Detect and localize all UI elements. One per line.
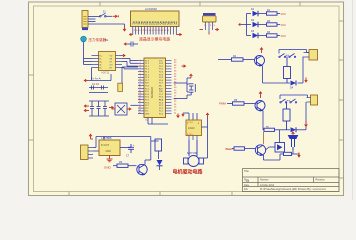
cluster bridge D group [115, 103, 127, 115]
LCD pins [133, 27, 177, 35]
transistor Q2 [255, 101, 265, 111]
pin mark red bottom right of MCU (red) [177, 114, 180, 118]
resistor R5 [233, 99, 245, 105]
svg-text:E-: E- [100, 58, 102, 60]
svg-text:VCC: VCC [281, 34, 287, 38]
wire block3 [264, 150, 294, 160]
svg-text:Date: Date [244, 184, 250, 187]
connector J1 (top-left) [82, 11, 88, 31]
svg-text:GND: GND [104, 166, 112, 170]
svg-text:D:\Protel\design\sheet1.ddb D: D:\Protel\design\sheet1.ddb Drawn By: xx… [260, 187, 327, 191]
svg-text:P1.3: P1.3 [145, 69, 149, 71]
LCD pin numbers (red) [132, 30, 170, 32]
wire J1 pins [88, 17, 125, 28]
svg-text:V V V R R E D0 D1 D2 D3 D4 D5: V V V R R E D0 D1 D2 D3 D4 D5 D6 D7 A K [132, 23, 178, 26]
transistor Q4 [137, 164, 147, 175]
wire collector up (brown) [263, 132, 265, 145]
svg-text:P2.3: P2.3 [159, 105, 163, 107]
potentiometer RV1 [203, 13, 217, 32]
LCD module LCD1 [131, 7, 180, 27]
svg-text:GND: GND [145, 114, 150, 116]
resistor R1 [264, 9, 281, 15]
relay coil RL1 [284, 57, 291, 84]
power VCC arrow right (red) [113, 15, 118, 18]
svg-text:P3.3: P3.3 [145, 94, 149, 96]
LED D1 [251, 8, 264, 16]
capacitor C1 C2 group [89, 86, 108, 93]
resistor R10 vertical [155, 139, 162, 159]
svg-text:P0.7: P0.7 [159, 83, 163, 85]
svg-text:P1.4: P1.4 [145, 72, 149, 74]
svg-text:P3.7: P3.7 [145, 105, 149, 107]
svg-text:C1 C2: C1 C2 [92, 83, 99, 86]
svg-text:P2.2: P2.2 [159, 108, 163, 110]
svg-text:电机驱动电路: 电机驱动电路 [173, 169, 204, 176]
motor M1 [184, 140, 204, 167]
MCU pin numbers (red) [139, 59, 178, 114]
wire emitter bus 2 [263, 102, 306, 130]
svg-text:XO: XO [110, 64, 113, 66]
inner border frame [34, 6, 340, 192]
svg-text:XT1: XT1 [145, 111, 148, 113]
resistor R3 [264, 31, 281, 37]
svg-text:P2.0: P2.0 [159, 114, 163, 116]
svg-text:压力传感器: 压力传感器 [89, 37, 107, 42]
svg-text:P1.0: P1.0 [145, 60, 149, 62]
svg-text:AT89C51: AT89C51 [150, 87, 154, 99]
buzzer LS1 [289, 136, 298, 151]
MCU pins left [138, 61, 144, 114]
node mark right (red) [305, 78, 308, 82]
connector P2 [304, 50, 318, 61]
LED D2 [251, 19, 264, 27]
node mark (red) [239, 23, 242, 25]
svg-text:VCC: VCC [281, 12, 287, 16]
relay K2 contacts [280, 95, 308, 103]
svg-text:P0.4: P0.4 [159, 74, 163, 76]
svg-text:VCC: VCC [281, 23, 287, 27]
svg-text:P0.1: P0.1 [159, 66, 163, 68]
title block [243, 169, 340, 192]
power above buzzer (red) [292, 132, 295, 135]
svg-text:P1.6: P1.6 [145, 77, 149, 79]
svg-text:P3.1: P3.1 [145, 88, 149, 90]
svg-text:Title: Title [244, 169, 249, 173]
MCU pin names (blue, inside) [145, 60, 164, 115]
wire base 1 [218, 59, 254, 61]
optocoupler U4 [266, 143, 285, 153]
resistor R8 [280, 152, 299, 155]
node mark right (red) [109, 106, 113, 109]
driver IC U3 [186, 120, 202, 140]
svg-text:Revision: Revision [316, 179, 326, 182]
svg-text:P1.7: P1.7 [145, 80, 149, 82]
wire MCU left bus [111, 44, 138, 83]
wire U2 to MCU [122, 59, 138, 69]
resistor R7 [234, 147, 245, 150]
svg-text:P3.4: P3.4 [145, 97, 149, 99]
power above Q2 (red) [259, 92, 262, 98]
ground pot (red) [200, 28, 219, 34]
svg-text:P2.7: P2.7 [159, 94, 163, 96]
svg-text:HX711: HX711 [102, 71, 110, 75]
wire base 3 [232, 148, 255, 150]
svg-text:P2.5: P2.5 [159, 100, 163, 102]
power mark above driver (red) [182, 113, 184, 116]
svg-text:L9110: L9110 [188, 127, 195, 130]
power above Q1 (red) [260, 48, 263, 53]
node mark (red) [305, 121, 308, 126]
capacitor bank C3 C4 C5 [89, 101, 109, 116]
svg-text:LCD1602: LCD1602 [145, 7, 157, 11]
svg-text:P0.0: P0.0 [159, 63, 163, 65]
svg-text:P3.6: P3.6 [145, 102, 149, 104]
regulator U5 7805 [99, 136, 120, 156]
svg-text:P0.5: P0.5 [159, 77, 163, 79]
svg-text:P1.1: P1.1 [145, 63, 149, 65]
power arrow right of driver (red) [206, 113, 209, 117]
svg-text:1 2 3 4 5 6 7 8 9 10 11 12 13: 1 2 3 4 5 6 7 8 9 10 11 12 13 14 15 16 [132, 30, 170, 32]
wire emitter bus 1 [263, 57, 304, 84]
relay K1 contacts [279, 50, 307, 58]
wire cluster to MCU [131, 104, 139, 106]
LED D3 [251, 30, 264, 38]
component Y1 (tan box) [118, 83, 123, 91]
power arrow up (red) [89, 134, 93, 139]
cap C7 electrolytic [120, 144, 134, 153]
border zone ticks [29, 2, 344, 196]
transistor Q1 [255, 56, 265, 66]
svg-text:P1.5: P1.5 [145, 74, 149, 76]
diode D7 down [157, 160, 163, 170]
svg-text:VCC: VCC [159, 60, 164, 62]
svg-text:P3.2: P3.2 [145, 91, 149, 93]
capacitor C6 with arrow [127, 42, 138, 47]
svg-text:P1.2: P1.2 [145, 66, 149, 68]
svg-text:P3.5: P3.5 [145, 100, 149, 102]
power section: connector P1 [81, 145, 94, 160]
resistor R6 [264, 126, 275, 131]
power arrow down (red) [123, 27, 126, 31]
transistor Q3 [255, 145, 265, 156]
svg-text:BL: BL [105, 38, 109, 42]
svg-text:PWM: PWM [219, 102, 227, 106]
resistor R4 [232, 55, 244, 61]
svg-text:MOTOR: MOTOR [187, 151, 197, 155]
power mark crystal (red) [190, 74, 193, 78]
pin mark red right of MCU (red) [182, 65, 186, 68]
pin mark red right of U2 [122, 54, 125, 57]
wire driver right to motor [202, 117, 208, 158]
relay coil RL2 [283, 102, 290, 130]
svg-text:Number: Number [260, 179, 269, 182]
svg-text:8 7 6 5: 8 7 6 5 [187, 134, 193, 136]
svg-text:GND: GND [106, 150, 112, 153]
svg-text:A4: A4 [246, 179, 250, 183]
wire U2 bottom bus [88, 68, 111, 81]
MCU U1 [144, 58, 166, 122]
diode D4 [290, 81, 296, 90]
ground below regulator (red) [107, 156, 113, 162]
svg-text:IN OUT: IN OUT [101, 144, 110, 147]
resistor R9 [113, 161, 137, 167]
diode D5 [291, 127, 297, 132]
switch S1 [100, 13, 113, 17]
power arrows left of bank (red) [84, 105, 89, 112]
svg-text:File: File [244, 188, 249, 191]
svg-text:P0.6: P0.6 [159, 80, 163, 82]
wires below MCU to driver [148, 113, 197, 124]
svg-text:E+ A+ A-: E+ A+ A- [91, 77, 101, 81]
svg-text:A-: A- [100, 63, 102, 66]
svg-text:1 2 3 4: 1 2 3 4 [187, 122, 193, 124]
wire Q4 collector [145, 137, 159, 165]
op-amp U2 (HX711) [92, 52, 123, 75]
wire P1 to regulator [93, 137, 151, 152]
wire base 2 [227, 103, 255, 105]
svg-text:BEEP: BEEP [226, 147, 234, 151]
sensor node (cyan) [81, 36, 87, 42]
crystal circuit [174, 78, 196, 99]
svg-text:P0.2: P0.2 [159, 69, 163, 71]
wire opto to bus [279, 130, 281, 143]
svg-text:P3.0: P3.0 [145, 86, 149, 88]
svg-text:液晶显示模块电路: 液晶显示模块电路 [139, 37, 170, 42]
connector P3 [307, 95, 318, 105]
svg-text:P0.3: P0.3 [159, 72, 163, 74]
svg-text:P2.4: P2.4 [159, 102, 163, 104]
wire sensor to U2 [84, 42, 92, 65]
power arrow left of LCD pins (red) [130, 33, 182, 36]
power arrow left (red) [84, 79, 88, 82]
svg-text:LM7805: LM7805 [102, 136, 113, 140]
svg-text:P2.6: P2.6 [159, 97, 163, 99]
MCU pins right [166, 61, 172, 114]
power arrows cluster (red) [112, 108, 131, 111]
node dot (red) [298, 153, 300, 157]
svg-text:P2.1: P2.1 [159, 111, 163, 113]
svg-text:XT2: XT2 [145, 108, 148, 110]
resistor R2 [264, 20, 281, 26]
LED bus wire [242, 14, 252, 36]
